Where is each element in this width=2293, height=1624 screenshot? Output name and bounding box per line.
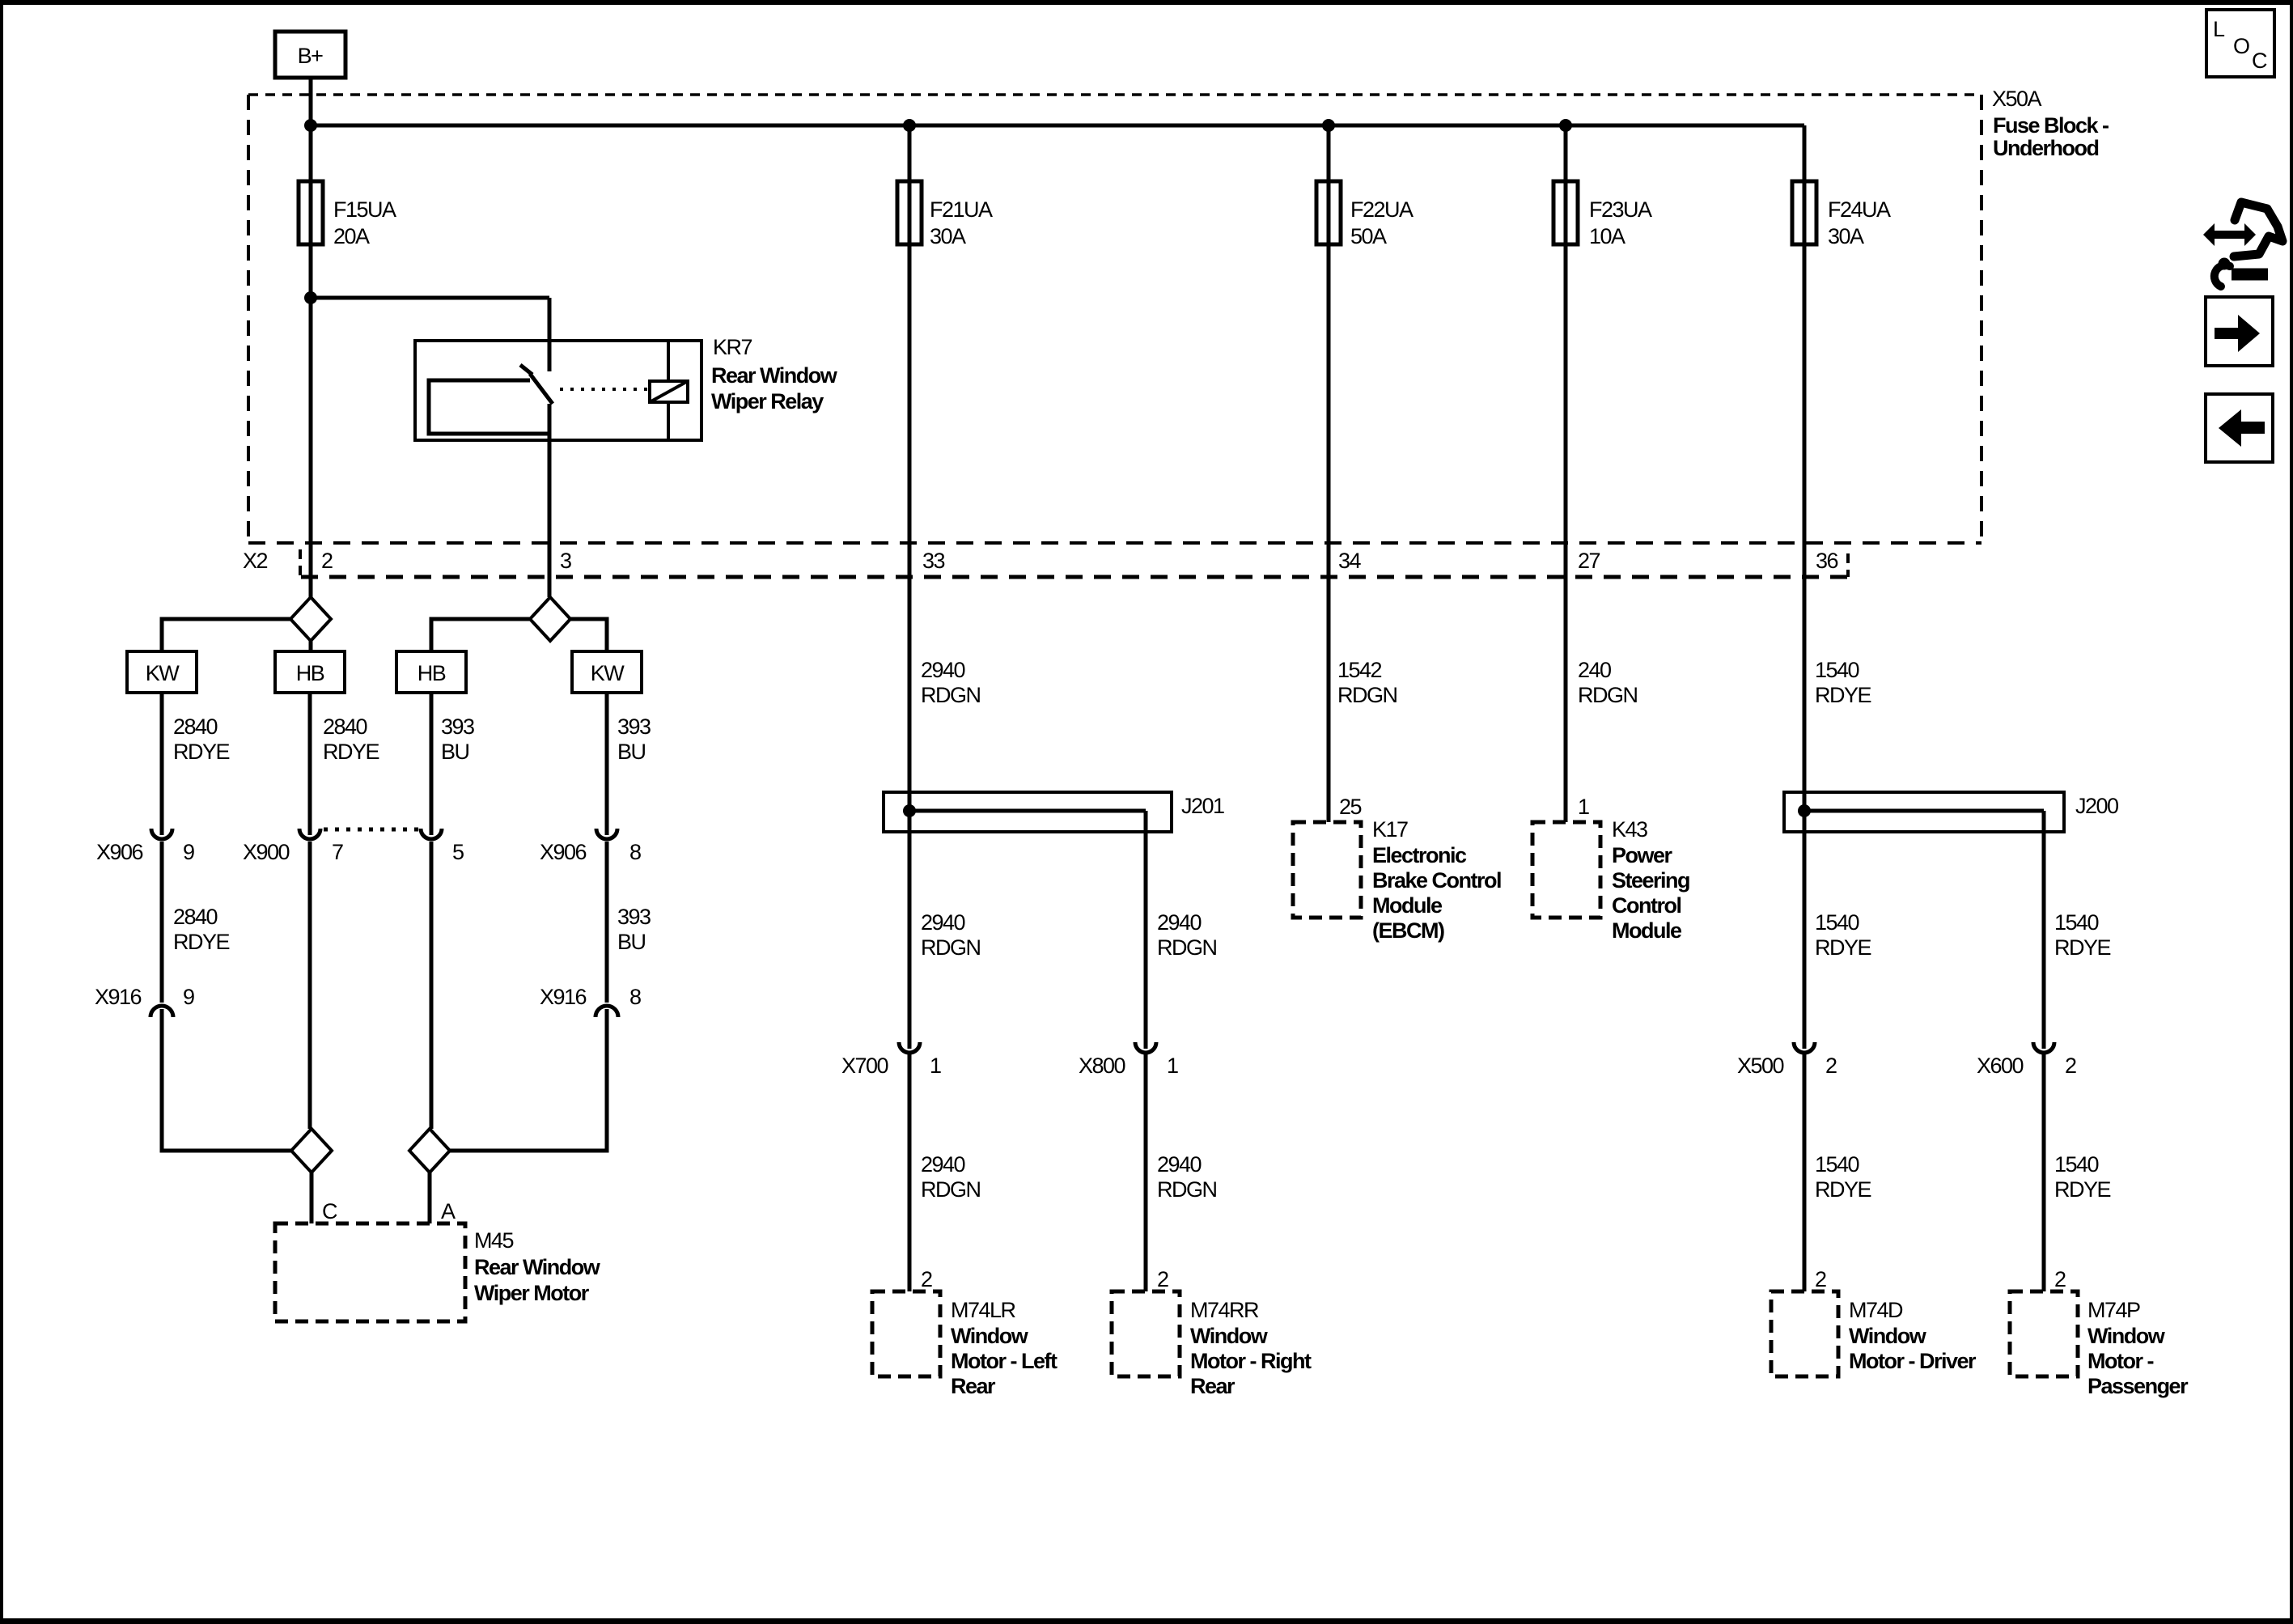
svg-text:BU: BU <box>617 930 646 954</box>
fuse F21UA 30A <box>897 125 993 1049</box>
svg-text:J201: J201 <box>1181 794 1224 818</box>
wire 240 RDGN label <box>1578 658 1638 707</box>
wire 393 BU label lower col4 <box>617 905 651 954</box>
svg-text:L: L <box>2213 17 2225 41</box>
svg-text:1: 1 <box>930 1054 941 1078</box>
wire J201 right branch down <box>1144 811 1148 1049</box>
svg-text:Steering: Steering <box>1612 868 1689 893</box>
wire splice to code KW left <box>162 619 290 651</box>
splice diamond M45 C <box>291 1129 332 1172</box>
svg-text:X500: X500 <box>1737 1054 1784 1078</box>
svg-text:20A: 20A <box>333 224 370 248</box>
svg-text:7: 7 <box>332 840 343 864</box>
svg-text:KW: KW <box>146 661 180 685</box>
svg-text:F22UA: F22UA <box>1350 197 1414 222</box>
svg-text:X906: X906 <box>540 840 587 864</box>
motor M74LR Window Motor - Left Rear <box>872 1291 1057 1398</box>
svg-text:1540: 1540 <box>2054 1152 2099 1177</box>
svg-text:Wiper Relay: Wiper Relay <box>711 389 824 413</box>
fuse block X50A dashed border <box>248 95 1981 543</box>
svg-text:KW: KW <box>591 661 625 685</box>
svg-text:X2: X2 <box>243 549 268 573</box>
wire B+ down through fuse F15UA to splice <box>309 78 313 597</box>
svg-text:RDGN: RDGN <box>1157 1177 1217 1202</box>
splice diamond M45 A <box>409 1129 450 1172</box>
wire 2940 RDGN label below J201 right <box>1157 910 1217 960</box>
inline connector X800 pin 1 <box>1079 1042 1178 1078</box>
wire 393 BU label col3 <box>441 714 474 764</box>
svg-text:393: 393 <box>617 714 651 739</box>
svg-text:BU: BU <box>441 740 469 764</box>
svg-text:RDGN: RDGN <box>921 683 981 707</box>
dotted link X900 <box>324 828 425 832</box>
code box KW 1 <box>127 651 197 693</box>
wire 2840 RDYE label col1 <box>173 714 230 764</box>
svg-text:RDYE: RDYE <box>1815 935 1871 960</box>
wire X800 to M74RR <box>1144 1054 1148 1291</box>
svg-text:M74D: M74D <box>1849 1298 1903 1322</box>
splice pack J200 <box>1784 792 2118 832</box>
svg-text:(EBCM): (EBCM) <box>1372 918 1444 943</box>
svg-text:Fuse Block -: Fuse Block - <box>1993 113 2109 138</box>
svg-text:27: 27 <box>1578 549 1600 573</box>
inline connector X600 pin 2 <box>1977 1042 2076 1078</box>
svg-text:M74RR: M74RR <box>1190 1298 1259 1322</box>
svg-text:1542: 1542 <box>1337 658 1382 682</box>
svg-text:36: 36 <box>1816 549 1838 573</box>
wire col4 between connectors <box>605 842 609 1003</box>
harness routing icon <box>2203 202 2282 286</box>
svg-text:2: 2 <box>921 1267 932 1291</box>
svg-text:Motor -: Motor - <box>2087 1349 2153 1373</box>
svg-text:Window: Window <box>1190 1324 1269 1348</box>
svg-text:O: O <box>2233 34 2249 58</box>
svg-text:X906: X906 <box>96 840 143 864</box>
svg-text:Motor - Driver: Motor - Driver <box>1849 1349 1977 1373</box>
wire col1 between connectors <box>160 842 164 1003</box>
wire splice to code HB right <box>431 619 530 651</box>
wire 1540 RDYE label above J200 <box>1815 658 1871 707</box>
svg-text:X916: X916 <box>540 985 587 1009</box>
code box KW 2 <box>572 651 642 693</box>
svg-text:30A: 30A <box>930 224 966 248</box>
svg-text:X900: X900 <box>243 840 290 864</box>
svg-text:3: 3 <box>560 549 571 573</box>
svg-text:240: 240 <box>1578 658 1611 682</box>
wire 2940 RDGN label lower left <box>921 1152 981 1202</box>
svg-text:2940: 2940 <box>921 658 965 682</box>
svg-text:1540: 1540 <box>2054 910 2099 935</box>
svg-text:Passenger: Passenger <box>2087 1374 2189 1398</box>
svg-text:1540: 1540 <box>1815 910 1859 935</box>
svg-text:A: A <box>441 1199 456 1223</box>
svg-text:Rear: Rear <box>1190 1374 1236 1398</box>
svg-text:F15UA: F15UA <box>333 197 396 222</box>
svg-text:5: 5 <box>452 840 464 864</box>
inline connector X906 pin 8 <box>540 829 641 864</box>
inline connector X916 pin 9 <box>95 985 194 1017</box>
junction dot relay branch <box>304 291 317 304</box>
fuse F15UA 20A <box>299 181 396 248</box>
wire splice to code HB left <box>309 641 313 651</box>
nav arrow right <box>2206 297 2273 366</box>
wire splice to code KW right <box>570 619 607 651</box>
svg-text:RDGN: RDGN <box>921 1177 981 1202</box>
code box HB 1 <box>275 651 345 693</box>
svg-text:M74LR: M74LR <box>951 1298 1016 1322</box>
motor M45 Rear Window Wiper Motor <box>275 1223 601 1321</box>
splice pack J201 <box>884 792 1224 832</box>
svg-text:Motor - Right: Motor - Right <box>1190 1349 1312 1373</box>
svg-text:2840: 2840 <box>323 714 367 739</box>
wire 1542 RDGN label <box>1337 658 1397 707</box>
module K43 Power Steering Control Module <box>1532 817 1689 943</box>
svg-text:1540: 1540 <box>1815 658 1859 682</box>
loc box <box>2206 10 2274 77</box>
svg-text:2: 2 <box>2054 1267 2066 1291</box>
svg-text:25: 25 <box>1339 795 1362 819</box>
motor M74P Window Motor - Passenger <box>2010 1291 2189 1398</box>
svg-text:Brake Control: Brake Control <box>1372 868 1501 893</box>
wire splice to M45 pin A <box>428 1172 432 1223</box>
svg-text:RDYE: RDYE <box>323 740 379 764</box>
svg-text:2: 2 <box>1157 1267 1168 1291</box>
svg-text:1: 1 <box>1167 1054 1178 1078</box>
svg-text:BU: BU <box>617 740 646 764</box>
svg-text:HB: HB <box>296 661 324 685</box>
svg-text:33: 33 <box>922 549 945 573</box>
wire col2 to splice <box>308 842 312 1129</box>
svg-text:Rear Window: Rear Window <box>474 1255 601 1279</box>
wire splice to M45 pin C <box>310 1172 314 1223</box>
svg-text:Electronic: Electronic <box>1372 843 1467 867</box>
svg-text:10A: 10A <box>1589 224 1625 248</box>
svg-text:RDYE: RDYE <box>173 930 230 954</box>
svg-text:393: 393 <box>617 905 651 929</box>
svg-text:393: 393 <box>441 714 474 739</box>
wire 393 BU label col4 <box>617 714 651 764</box>
bus wire from B+ across fuse block <box>311 124 1804 128</box>
svg-text:Window: Window <box>2087 1324 2166 1348</box>
svg-text:2940: 2940 <box>921 910 965 935</box>
wire 1540 RDYE label lower right <box>2054 1152 2111 1202</box>
wire col1 to splice <box>162 1009 291 1151</box>
svg-text:Power: Power <box>1612 843 1673 867</box>
svg-text:1: 1 <box>1578 795 1589 819</box>
connector X2 pin row dashed line <box>300 549 1848 577</box>
junction dot bus F22UA <box>1322 119 1335 132</box>
svg-text:K43: K43 <box>1612 817 1647 842</box>
wire relay KR7 output to splice <box>548 404 552 597</box>
svg-text:RDYE: RDYE <box>2054 1177 2111 1202</box>
motor M74RR Window Motor - Right Rear <box>1112 1291 1312 1398</box>
inline connector X900 pin 7 <box>243 829 343 864</box>
relay KR7 <box>415 335 838 440</box>
svg-text:X600: X600 <box>1977 1054 2024 1078</box>
svg-text:RDGN: RDGN <box>1578 683 1638 707</box>
svg-text:X800: X800 <box>1079 1054 1125 1078</box>
module K17 Electronic Brake Control Module <box>1293 817 1501 943</box>
wire X500 to M74D <box>1803 1054 1807 1291</box>
svg-text:F24UA: F24UA <box>1828 197 1891 222</box>
svg-text:2840: 2840 <box>173 905 218 929</box>
svg-text:KR7: KR7 <box>713 335 752 359</box>
wire 1540 RDYE label lower left <box>1815 1152 1871 1202</box>
svg-text:K17: K17 <box>1372 817 1408 842</box>
svg-text:RDYE: RDYE <box>2054 935 2111 960</box>
svg-text:RDYE: RDYE <box>173 740 230 764</box>
svg-text:M45: M45 <box>474 1228 514 1253</box>
svg-text:RDGN: RDGN <box>1157 935 1217 960</box>
svg-text:Module: Module <box>1612 918 1682 943</box>
wire 2840 RDYE label lower col1 <box>173 905 230 954</box>
svg-text:C: C <box>2252 49 2267 73</box>
svg-text:RDGN: RDGN <box>1337 683 1397 707</box>
inline connector X916 pin 8 <box>540 985 641 1017</box>
svg-text:2: 2 <box>2065 1054 2076 1078</box>
wire col4 to splice <box>450 1009 607 1151</box>
fuse F24UA 30A <box>1792 125 1891 1049</box>
splice diamond wire 2 <box>290 597 331 641</box>
svg-text:2940: 2940 <box>921 1152 965 1177</box>
wire 2840 RDYE label col2 <box>323 714 379 764</box>
svg-text:RDGN: RDGN <box>921 935 981 960</box>
nav arrow left <box>2206 394 2273 462</box>
wire HB2 down <box>430 693 434 835</box>
svg-text:HB: HB <box>417 661 446 685</box>
svg-text:B+: B+ <box>298 44 324 68</box>
svg-text:2840: 2840 <box>173 714 218 739</box>
inline connector X900 pin 5 <box>421 829 464 864</box>
svg-text:8: 8 <box>629 985 641 1009</box>
svg-text:F23UA: F23UA <box>1589 197 1652 222</box>
inline connector X906 pin 9 <box>96 829 194 864</box>
svg-text:Window: Window <box>951 1324 1029 1348</box>
junction dot bus F23UA <box>1559 119 1572 132</box>
svg-text:50A: 50A <box>1350 224 1387 248</box>
junction dot B+ bus <box>304 119 317 132</box>
svg-text:2940: 2940 <box>1157 1152 1202 1177</box>
svg-text:RDYE: RDYE <box>1815 683 1871 707</box>
splice diamond wire 3 <box>530 597 570 641</box>
svg-text:2: 2 <box>1825 1054 1837 1078</box>
svg-text:Rear: Rear <box>951 1374 996 1398</box>
svg-text:8: 8 <box>629 840 641 864</box>
svg-text:C: C <box>322 1199 337 1223</box>
wire J200 right branch down <box>2042 811 2046 1049</box>
svg-text:X916: X916 <box>95 985 142 1009</box>
svg-text:2: 2 <box>1815 1267 1826 1291</box>
wire 2940 RDGN label lower right <box>1157 1152 1217 1202</box>
svg-text:X50A: X50A <box>1992 87 2042 111</box>
power feed B+ <box>275 32 345 78</box>
fuse F22UA 50A <box>1316 125 1414 822</box>
svg-text:Motor - Left: Motor - Left <box>951 1349 1057 1373</box>
svg-text:Wiper Motor: Wiper Motor <box>474 1281 590 1305</box>
svg-text:X700: X700 <box>841 1054 888 1078</box>
inline connector X500 pin 2 <box>1737 1042 1837 1078</box>
wire KW2 down <box>605 693 609 835</box>
svg-text:M74P: M74P <box>2087 1298 2140 1322</box>
inline connector X700 pin 1 <box>841 1042 941 1078</box>
svg-text:30A: 30A <box>1828 224 1864 248</box>
svg-text:1540: 1540 <box>1815 1152 1859 1177</box>
label X50A Fuse Block - Underhood <box>1992 87 2109 160</box>
svg-text:Module: Module <box>1372 893 1443 918</box>
svg-text:F21UA: F21UA <box>930 197 993 222</box>
wire 1540 RDYE label below J200 left <box>1815 910 1871 960</box>
code box HB 2 <box>396 651 466 693</box>
svg-text:2: 2 <box>321 549 333 573</box>
svg-text:Window: Window <box>1849 1324 1927 1348</box>
wire col3 to splice <box>430 842 434 1129</box>
svg-text:Rear Window: Rear Window <box>711 363 838 388</box>
svg-text:J200: J200 <box>2075 794 2118 818</box>
wire F15UA to relay branch junction <box>311 296 549 300</box>
wire HB1 down <box>308 693 312 835</box>
motor M74D Window Motor - Driver <box>1771 1291 1977 1376</box>
wire branch down into relay KR7 <box>548 298 552 371</box>
svg-text:2940: 2940 <box>1157 910 1202 935</box>
wire 2940 RDGN label below J201 left <box>921 910 981 960</box>
svg-text:9: 9 <box>183 985 194 1009</box>
wire 2940 RDGN label above J201 <box>921 658 981 707</box>
wire 1540 RDYE label below J200 right <box>2054 910 2111 960</box>
wire X700 to M74LR <box>908 1054 912 1291</box>
fuse F23UA 10A <box>1553 125 1652 822</box>
svg-text:Underhood: Underhood <box>1993 136 2098 160</box>
wire X600 to M74P <box>2042 1054 2046 1291</box>
junction dot bus F21UA <box>903 119 916 132</box>
svg-text:Control: Control <box>1612 893 1681 918</box>
svg-text:RDYE: RDYE <box>1815 1177 1871 1202</box>
wire KW1 down <box>160 693 164 835</box>
svg-text:34: 34 <box>1338 549 1362 573</box>
svg-text:9: 9 <box>183 840 194 864</box>
